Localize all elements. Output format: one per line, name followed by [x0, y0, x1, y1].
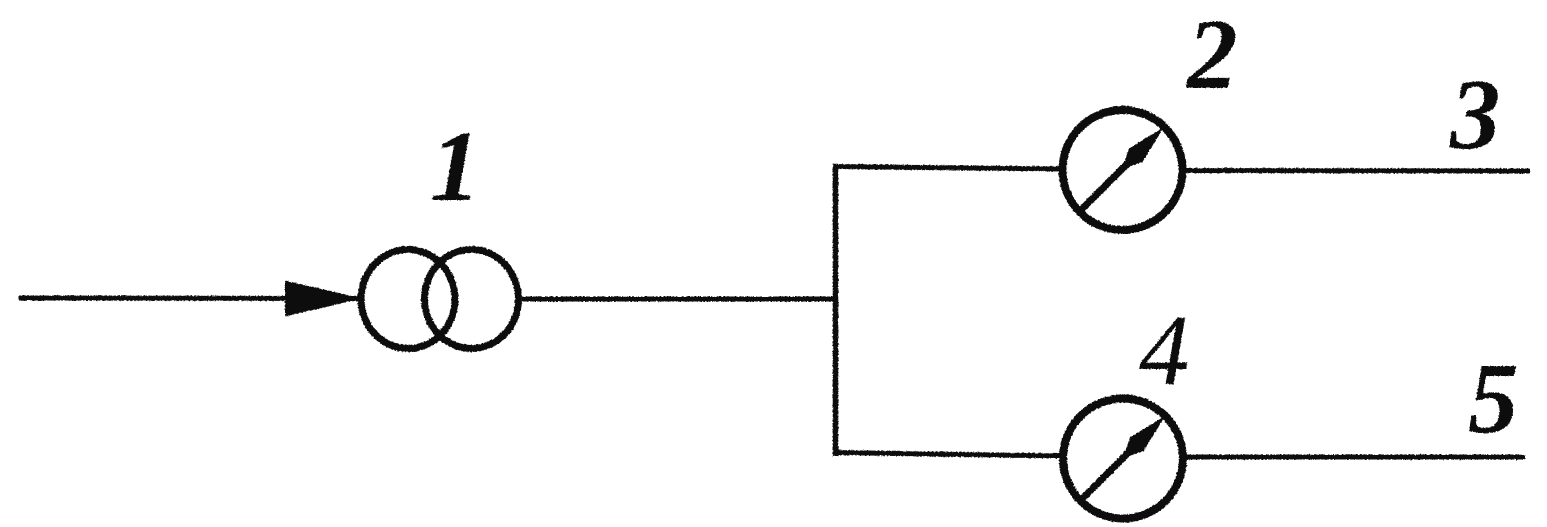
wire bottom branch right output: [1181, 455, 1525, 460]
svg-text:2: 2: [1185, 0, 1238, 110]
svg-text:4: 4: [1139, 294, 1190, 406]
meter 2 needle arrowhead: [1122, 127, 1164, 169]
wire input left: [19, 296, 362, 302]
wire top branch left: [833, 167, 1064, 170]
wire coupler to junction: [522, 297, 838, 302]
svg-text:5: 5: [1468, 342, 1519, 454]
meter 2 circle: [1063, 110, 1183, 230]
svg-text:1: 1: [430, 110, 481, 222]
arrow propagation direction: [285, 281, 362, 317]
svg-text:3: 3: [1449, 58, 1501, 170]
meter 2 needle: [1079, 159, 1132, 212]
coupler 1 right circle: [425, 250, 519, 349]
wire junction vertical: [833, 164, 839, 456]
meter 4 circle: [1063, 399, 1183, 519]
meter 4 needle: [1081, 447, 1134, 500]
meter 4 needle arrowhead: [1123, 416, 1165, 458]
coupler 1 left circle: [361, 250, 455, 349]
wire top branch right output: [1181, 168, 1530, 174]
wire bottom branch left: [833, 453, 1062, 457]
